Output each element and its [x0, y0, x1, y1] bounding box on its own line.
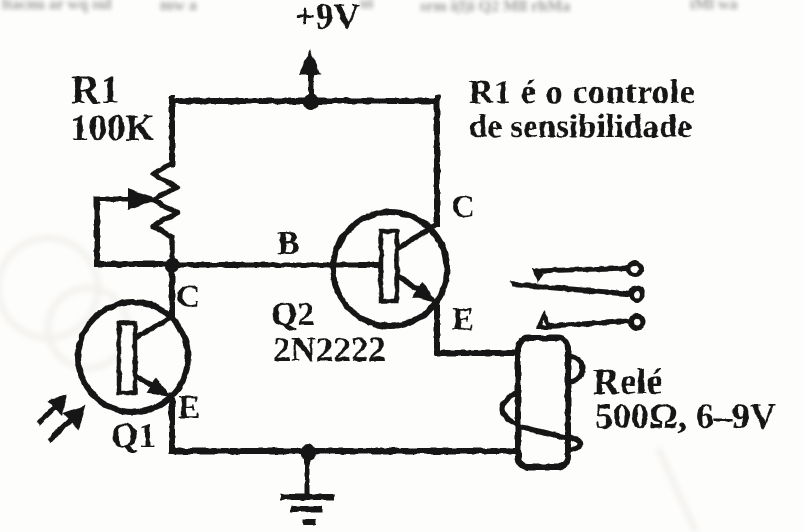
svg-text:ui: ui: [360, 0, 374, 12]
ground node: [300, 444, 316, 460]
wire: wiper return to bottom terminal: [97, 196, 172, 264]
potentiometer R1 zigzag: [153, 163, 177, 266]
transistor Q2: [333, 212, 447, 326]
svg-text:C: C: [451, 189, 475, 225]
svg-text:500Ω, 6–9V: 500Ω, 6–9V: [595, 396, 776, 436]
svg-text:100K: 100K: [70, 108, 155, 149]
light input arrows: [38, 394, 86, 441]
potentiometer R1 wiper arrow: [97, 188, 172, 264]
svg-text:Q1: Q1: [111, 416, 156, 455]
relay coil winding: [502, 356, 582, 451]
relay terminal circles: [629, 263, 643, 328]
wire: top bus from R1 top to Q2 collector: [172, 98, 437, 104]
wire: Q1 emitter lead: [169, 395, 175, 451]
svg-text:E: E: [452, 302, 474, 338]
svg-text:E: E: [178, 390, 200, 426]
relay contact NO (bottom) with triangle: [539, 315, 629, 327]
svg-text:de sensibilidade: de sensibilidade: [469, 109, 692, 145]
scan noise top edge (decorative): [2, 0, 738, 15]
svg-text:B: B: [277, 225, 300, 262]
wire: bottom ground bus: [172, 448, 518, 454]
wire: Q2 collector riser: [434, 98, 440, 224]
svg-text:+9V: +9V: [295, 0, 360, 36]
relay contact NC (top): [532, 268, 628, 283]
node: top bus / +9V junction: [303, 94, 319, 110]
wire: node to Q2 base: [172, 263, 382, 268]
svg-text:R1 é o controle: R1 é o controle: [469, 74, 695, 111]
svg-text:iMl wa: iMl wa: [690, 0, 738, 13]
relay armature: [510, 282, 629, 297]
ground symbol: [280, 452, 334, 522]
wire: Q2 emitter to relay coil: [437, 302, 518, 353]
svg-text:Q2: Q2: [271, 296, 314, 333]
power symbol +9V arrow: [299, 50, 321, 103]
wire: Q1 collector lead: [169, 264, 175, 318]
svg-text:2N2222: 2N2222: [273, 330, 386, 369]
svg-text:C: C: [176, 279, 200, 315]
svg-text:mw a: mw a: [160, 0, 197, 14]
svg-text:srm i(l)i Q2 Mll rhMa: srm i(l)i Q2 Mll rhMa: [420, 0, 570, 15]
transistor Q1 (phototransistor): [78, 302, 188, 412]
node A: pot bottom / Q1 collector / Q2 base junction: [165, 258, 180, 273]
svg-text:R1: R1: [71, 67, 120, 112]
svg-text:ltacnu ar wq sul: ltacnu ar wq sul: [2, 0, 112, 13]
wire: R1 top lead: [169, 98, 175, 164]
relay coil body: [518, 338, 568, 467]
